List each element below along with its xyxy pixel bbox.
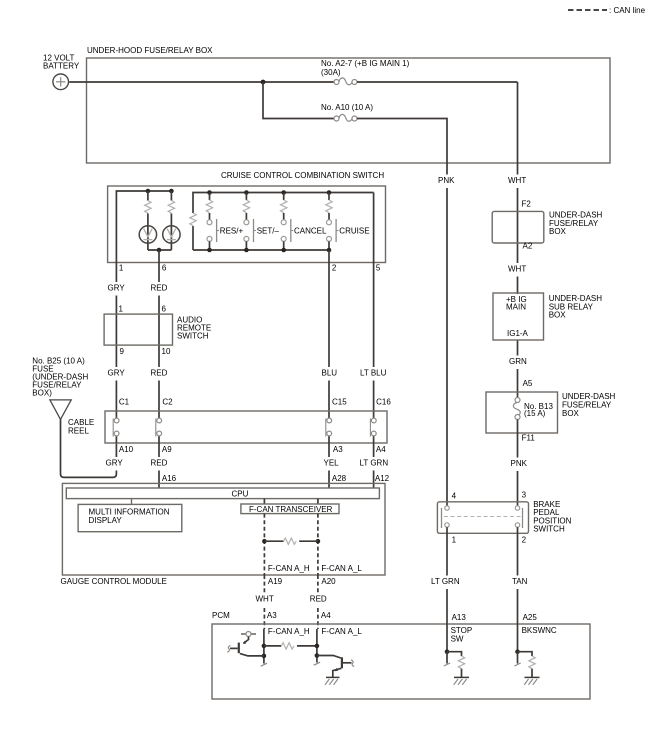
svg-text:A3: A3 (333, 445, 343, 454)
svg-text:BOX: BOX (549, 311, 567, 320)
switch SET/- (243, 190, 279, 252)
svg-text:CRUISE: CRUISE (339, 226, 369, 235)
fuse No. A10 (10 A) (321, 103, 373, 121)
svg-text:A13: A13 (452, 613, 467, 622)
svg-text:BOX: BOX (549, 227, 567, 236)
node lamp rail junctions (146, 189, 151, 194)
svg-text:YEL: YEL (324, 459, 340, 468)
svg-text:LT GRN: LT GRN (360, 459, 389, 468)
transistor Q1 (227, 632, 264, 656)
F2 fuse box (492, 200, 602, 251)
wire fuse A2-7 to WHT vertical (357, 81, 518, 83)
svg-text:LT BLU: LT BLU (360, 369, 387, 378)
legend CAN line (568, 6, 646, 15)
wire through connector C1-A10 (115, 419, 117, 443)
svg-text:C15: C15 (332, 398, 347, 407)
svg-text:PNK: PNK (438, 176, 455, 185)
terminal C1/A10 (113, 418, 119, 436)
svg-text:C16: C16 (376, 398, 391, 407)
ground G2 (454, 677, 469, 684)
antenna feed symbol (50, 400, 71, 420)
audio remote switch (104, 305, 211, 357)
svg-text:6: 6 (162, 305, 167, 314)
svg-text:2: 2 (332, 264, 337, 273)
svg-text:1: 1 (452, 536, 457, 545)
svg-text:1: 1 (119, 305, 124, 314)
svg-text:A5: A5 (523, 379, 533, 388)
svg-text:C1: C1 (119, 398, 130, 407)
svg-text:9: 9 (120, 347, 125, 356)
svg-text:4: 4 (452, 492, 457, 501)
svg-text:TAN: TAN (512, 577, 528, 586)
svg-text:RED: RED (151, 369, 168, 378)
svg-text:F2: F2 (522, 200, 532, 209)
svg-text:F11: F11 (522, 434, 536, 443)
wire colors row 1 (106, 282, 126, 296)
wire lamp bottom rail (148, 249, 172, 251)
node junction at battery feed (261, 80, 266, 85)
svg-text:A12: A12 (375, 474, 390, 483)
battery B+ 12 volt (43, 54, 80, 90)
svg-text:A19: A19 (268, 577, 283, 586)
svg-text:WHT: WHT (256, 594, 274, 603)
resistor to ground at A13 (447, 652, 465, 678)
terminal C2/A9 (156, 418, 162, 436)
wire TAN brake pin2 to PCM A25 (517, 527, 519, 649)
svg-text:No. A10 (10 A): No. A10 (10 A) (321, 103, 373, 112)
dashed CAN wires to PCM (263, 575, 265, 629)
svg-text:F-CAN A_H: F-CAN A_H (268, 564, 310, 573)
node A25 junction (515, 649, 520, 654)
wire LT GRN brake pin1 to PCM A13 (446, 527, 448, 649)
lamp L2 with resistor (163, 191, 180, 250)
label GRN (508, 356, 529, 370)
svg-text:SWITCH: SWITCH (177, 332, 209, 341)
PCM box (212, 624, 590, 699)
wire A4 inside PCM (316, 629, 318, 663)
F-CAN transceiver (241, 504, 339, 514)
svg-text:GRY: GRY (108, 284, 126, 293)
svg-text:A3: A3 (267, 611, 277, 620)
stub A13 end (446, 652, 448, 664)
label TAN (511, 576, 531, 590)
svg-text:F-CAN A_H: F-CAN A_H (268, 627, 310, 636)
termination resistor in gauge (262, 538, 320, 544)
label LT GRN (430, 576, 459, 590)
terminal C16/A4 (370, 418, 376, 436)
svg-text:SWITCH: SWITCH (533, 525, 565, 534)
ground G3 (524, 677, 539, 684)
multi information display (78, 504, 182, 531)
svg-text:5: 5 (376, 264, 381, 273)
svg-text:A4: A4 (321, 611, 331, 620)
wire GRN through sub relay to B13 (517, 420, 519, 506)
svg-text:A25: A25 (523, 613, 538, 622)
inner switch block bottom rail (193, 249, 329, 251)
CPU box (66, 488, 379, 499)
svg-text:RED: RED (151, 284, 168, 293)
svg-text:IG1-A: IG1-A (507, 329, 529, 338)
svg-text:LT GRN: LT GRN (431, 577, 460, 586)
svg-text:SET/–: SET/– (257, 226, 280, 235)
under-dash sub relay box +B IG MAIN (493, 293, 602, 340)
wire A3 inside PCM (263, 629, 265, 664)
fuse No. B13 (15 A) box (486, 392, 616, 433)
svg-text:PNK: PNK (511, 459, 528, 468)
fuse No. A2-7 (+B IG MAIN 1) (30A) (321, 59, 410, 85)
svg-text:F-CAN A_L: F-CAN A_L (321, 564, 362, 573)
svg-text:RED: RED (310, 594, 327, 603)
fuse B25 note (32, 357, 88, 398)
svg-text:A28: A28 (332, 474, 347, 483)
svg-text:WHT: WHT (508, 176, 526, 185)
node A4 junctions (315, 644, 320, 649)
resistor to ground at A25 (518, 652, 536, 678)
label WHT mid (507, 263, 529, 277)
svg-text:UNDER-HOOD FUSE/RELAY BOX: UNDER-HOOD FUSE/RELAY BOX (87, 46, 213, 55)
cruise control combination switch (108, 171, 386, 263)
svg-text:CPU: CPU (232, 489, 249, 498)
svg-text:DISPLAY: DISPLAY (89, 516, 123, 525)
svg-text:SW: SW (451, 635, 464, 644)
switch RES/+ (206, 190, 243, 252)
wire colors row 3 (104, 457, 124, 471)
svg-text:CANCEL: CANCEL (294, 226, 327, 235)
svg-text:10: 10 (162, 347, 171, 356)
wire pin 6 down (158, 250, 160, 421)
svg-text:F-CAN TRANSCEIVER: F-CAN TRANSCEIVER (249, 505, 333, 514)
svg-text:(30A): (30A) (321, 68, 341, 77)
svg-text:F-CAN A_L: F-CAN A_L (321, 627, 362, 636)
dashed CAN wire F-CAN A_H inside gauge (263, 514, 265, 575)
label WHT (507, 175, 529, 189)
wire pin 2 down to C15 (328, 250, 330, 419)
lamp L1 with resistor (139, 191, 156, 250)
connector box (105, 411, 387, 443)
node pin 6 junction (157, 248, 162, 253)
svg-text:BOX: BOX (562, 409, 580, 418)
inner switch block top rail (193, 193, 374, 214)
svg-text:6: 6 (162, 264, 167, 273)
svg-text:GRY: GRY (106, 459, 124, 468)
wire through connector C16-A4 (373, 419, 375, 488)
svg-text:PCM: PCM (212, 611, 230, 620)
svg-text:GRN: GRN (509, 357, 527, 366)
wire WHT to F2 (517, 82, 519, 294)
svg-text:GAUGE CONTROL MODULE: GAUGE CONTROL MODULE (61, 577, 167, 586)
svg-text:WHT: WHT (508, 265, 526, 274)
switch CRUISE (326, 190, 370, 252)
svg-text:2: 2 (522, 536, 527, 545)
svg-text:A4: A4 (376, 445, 386, 454)
svg-text:1: 1 (119, 264, 124, 273)
ground G1 (325, 677, 340, 684)
svg-text:A16: A16 (162, 474, 177, 483)
wires CPU to F-CAN transceiver (263, 499, 265, 504)
wire colors WHT RED (254, 593, 276, 607)
svg-text:A9: A9 (162, 445, 172, 454)
svg-text:BATTERY: BATTERY (43, 62, 80, 71)
gauge control module (61, 483, 386, 586)
svg-text:GRY: GRY (108, 369, 126, 378)
wire pin 1 rail (116, 191, 171, 421)
svg-text:A10: A10 (119, 445, 134, 454)
label PNK right (509, 458, 530, 472)
CAN termination resistor in PCM (264, 643, 317, 649)
wire through connector C15-A3 (328, 419, 330, 488)
node A3 junctions (262, 644, 267, 649)
wire battery to fuse A2-7 (69, 81, 334, 83)
svg-text:MAIN: MAIN (506, 303, 526, 312)
dashed CAN wire F-CAN A_L inside gauge (317, 514, 319, 575)
under-hood fuse/relay box (87, 46, 611, 163)
wire cable reel to GRY (61, 419, 117, 477)
svg-text:3: 3 (522, 491, 527, 500)
brake pedal position switch (437, 491, 571, 545)
svg-text:RES/+: RES/+ (220, 226, 244, 235)
node A13 junction (445, 649, 450, 654)
label PNK (437, 175, 458, 189)
switch CANCEL (281, 190, 328, 252)
svg-text:No. A2-7 (+B IG MAIN 1): No. A2-7 (+B IG MAIN 1) (321, 59, 410, 68)
wire colors row 2 (106, 367, 126, 381)
svg-text:: CAN line: : CAN line (609, 6, 646, 15)
wire PNK fuse A10 to brake pedal position switch pin 4 (357, 119, 447, 506)
svg-text:BKSWNC: BKSWNC (522, 626, 557, 635)
svg-text:A2: A2 (523, 242, 533, 251)
svg-text:C2: C2 (162, 398, 173, 407)
svg-text:BLU: BLU (322, 369, 338, 378)
wire junction down to fuse A10 (263, 82, 334, 119)
wire pin 5 right edge down to C16 (373, 193, 375, 420)
svg-text:(15 A): (15 A) (524, 409, 546, 418)
wire through connector C2-A9 (158, 419, 160, 488)
terminal C15/A3 (326, 418, 332, 436)
stub A25 end (517, 652, 519, 664)
svg-text:A20: A20 (321, 577, 336, 586)
svg-text:BOX): BOX) (32, 389, 52, 398)
svg-text:RED: RED (151, 459, 168, 468)
wire from +B IG MAIN to fuse B13 (517, 340, 519, 397)
wire CPU to multi information display (131, 499, 133, 505)
transistor Q2 (317, 656, 354, 678)
resistor on inner left edge (190, 213, 196, 226)
svg-text:CRUISE CONTROL COMBINATION SWI: CRUISE CONTROL COMBINATION SWITCH (221, 171, 384, 180)
svg-text:REEL: REEL (68, 427, 89, 436)
